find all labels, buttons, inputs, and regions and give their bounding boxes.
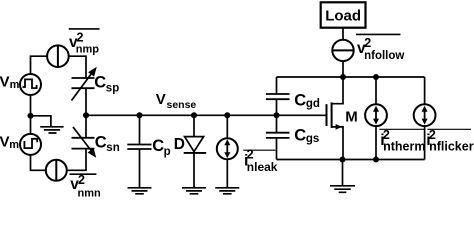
noise source vnfollow — [332, 40, 353, 61]
node junction intherm top — [373, 74, 379, 80]
node junction intherm bottom — [373, 157, 379, 163]
wire Csn to bottom loop — [67, 149, 86, 170]
node junction at inleak — [224, 112, 230, 118]
wire ground tap — [31, 116, 51, 126]
node junction at Cp — [137, 112, 143, 118]
label Vsense — [156, 91, 197, 111]
wire vnfollow to rail — [342, 61, 344, 77]
label inleak — [243, 147, 278, 174]
wire source to ground — [342, 160, 344, 186]
wire Vsense to inleak — [226, 115, 228, 138]
node junction source — [340, 157, 346, 163]
svg-text:nmp: nmp — [76, 43, 100, 55]
wire inflicker to bottom rail — [424, 126, 426, 159]
noise source vnmn — [46, 160, 67, 181]
voltage source Vm (top) — [20, 74, 41, 95]
svg-text:V: V — [0, 134, 10, 151]
wire bottom rail — [277, 159, 425, 161]
svg-text:ntherm: ntherm — [383, 139, 425, 153]
label vnmp — [69, 29, 100, 55]
label vnmn — [70, 173, 102, 199]
svg-text:Load: Load — [325, 7, 361, 24]
wire rail to intherm — [375, 77, 377, 104]
ground (under inleak) — [215, 188, 239, 194]
capacitor Cgs — [266, 133, 290, 138]
Load box — [321, 2, 366, 27]
svg-text:gs: gs — [306, 133, 319, 145]
vnmp internal bar — [57, 46, 59, 67]
svg-text:sp: sp — [106, 82, 119, 94]
current source inflicker — [414, 104, 436, 126]
svg-text:2: 2 — [364, 36, 371, 50]
label vnfollow — [356, 34, 404, 62]
node junction Vm mid — [28, 113, 34, 119]
node junction at Cs branch — [83, 112, 89, 118]
noise source vnmp — [47, 45, 69, 67]
node Vsense wire — [86, 114, 327, 116]
capacitor Csp (variable) — [72, 67, 97, 101]
label Cp — [152, 137, 170, 158]
wire Load to vnfollow — [342, 28, 344, 40]
wire Cgd to gate node — [276, 100, 278, 133]
label Csp — [94, 74, 119, 95]
svg-text:M: M — [345, 108, 358, 125]
svg-text:V: V — [0, 74, 10, 91]
wire vnmp to Csp — [69, 56, 86, 77]
svg-text:nfollow: nfollow — [364, 50, 404, 62]
ground (under diode) — [182, 188, 206, 194]
svg-text:D: D — [174, 136, 185, 153]
wire inleak to ground — [226, 159, 228, 187]
label Cgd — [294, 92, 320, 111]
svg-text:2: 2 — [77, 30, 84, 44]
svg-text:C: C — [294, 92, 306, 110]
wire top-left loop — [31, 56, 48, 74]
diode D — [184, 137, 207, 153]
wire between Vm sources — [30, 95, 32, 134]
label Csn — [95, 134, 120, 155]
ground (under M) — [330, 186, 355, 193]
svg-text:sense: sense — [167, 99, 197, 111]
wire Cp to ground — [139, 149, 141, 187]
svg-text:C: C — [294, 126, 306, 144]
ground (under Cp) — [128, 188, 152, 194]
voltage source Vm (bottom) — [20, 134, 41, 155]
capacitor Csn (variable) — [72, 127, 97, 158]
node junction gate — [274, 112, 280, 118]
capacitor Cgd — [266, 94, 290, 99]
svg-text:C: C — [94, 74, 106, 92]
label Vm (bottom) — [0, 134, 19, 152]
svg-text:C: C — [95, 134, 107, 152]
transistor M — [327, 77, 344, 160]
svg-text:p: p — [164, 146, 171, 158]
wire diode to ground — [193, 153, 195, 187]
label Cgs — [294, 126, 319, 145]
wire Vsense to Cp — [139, 115, 141, 144]
wire top rail — [277, 76, 425, 78]
svg-text:2: 2 — [78, 173, 85, 187]
wire rail to inflicker — [424, 77, 426, 104]
wire vnmn to Vm bottom — [31, 155, 46, 170]
svg-text:nleak: nleak — [247, 160, 278, 174]
wire Vsense to diode — [193, 115, 195, 136]
svg-text:C: C — [152, 137, 164, 155]
vnfollow internal bar — [333, 49, 354, 51]
label intherm — [379, 128, 425, 154]
svg-text:sn: sn — [106, 142, 119, 154]
label Vm (top) — [0, 74, 20, 92]
node junction at diode — [191, 112, 197, 118]
current source intherm — [365, 104, 387, 126]
wire intherm to bottom rail — [375, 126, 377, 159]
capacitor Cp — [127, 145, 151, 150]
current source inleak — [217, 138, 238, 159]
ground (mid-left) — [40, 127, 63, 133]
svg-text:nflicker: nflicker — [429, 139, 474, 153]
wire Csp to Vsense node — [85, 89, 87, 138]
svg-text:V: V — [156, 91, 166, 108]
vnmn internal bar — [55, 160, 57, 181]
label inflicker — [426, 128, 473, 154]
wire Cgs to bottom rail — [276, 138, 278, 159]
wire Cgd branch top — [276, 77, 278, 94]
svg-text:m: m — [10, 79, 20, 91]
svg-text:nmn: nmn — [78, 187, 102, 198]
node junction drain — [340, 74, 346, 80]
svg-text:gd: gd — [306, 98, 320, 110]
svg-text:m: m — [9, 139, 19, 151]
